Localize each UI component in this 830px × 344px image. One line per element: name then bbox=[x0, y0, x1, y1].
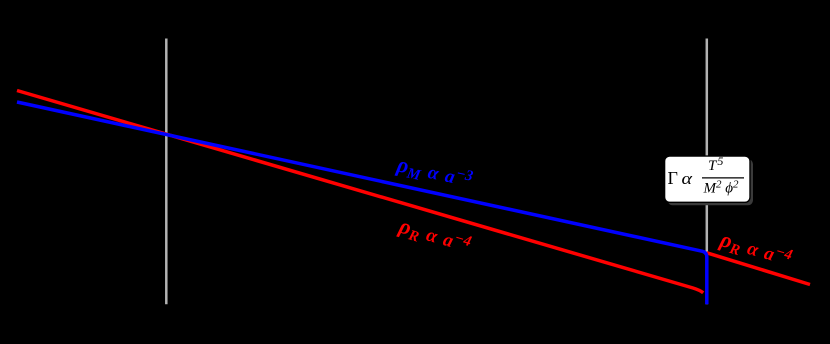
blue curve rho_M (slope a^-3, sharp drop at decay) bbox=[17, 102, 707, 304]
vertical marker line (matter-radiation equality) bbox=[165, 39, 168, 305]
blue label rho_M propto a^-3 bbox=[393, 151, 475, 195]
svg-text:Γ: Γ bbox=[668, 168, 678, 188]
red curve rho_R before decay (slope a^-4) bbox=[17, 91, 703, 293]
annotation box shadow bbox=[668, 159, 753, 205]
vertical marker line (reheating / decay time) bbox=[706, 39, 709, 305]
red label rho_R propto a^-4 (right) bbox=[716, 226, 795, 273]
annotation box Gamma = T^5/(M^2 phi^2) bbox=[665, 156, 750, 202]
svg-text:α: α bbox=[682, 169, 693, 188]
red label rho_R propto a^-4 (middle) bbox=[395, 212, 474, 259]
fraction bar bbox=[702, 177, 744, 179]
red curve rho_R after decay (slope a^-4) bbox=[707, 253, 810, 285]
